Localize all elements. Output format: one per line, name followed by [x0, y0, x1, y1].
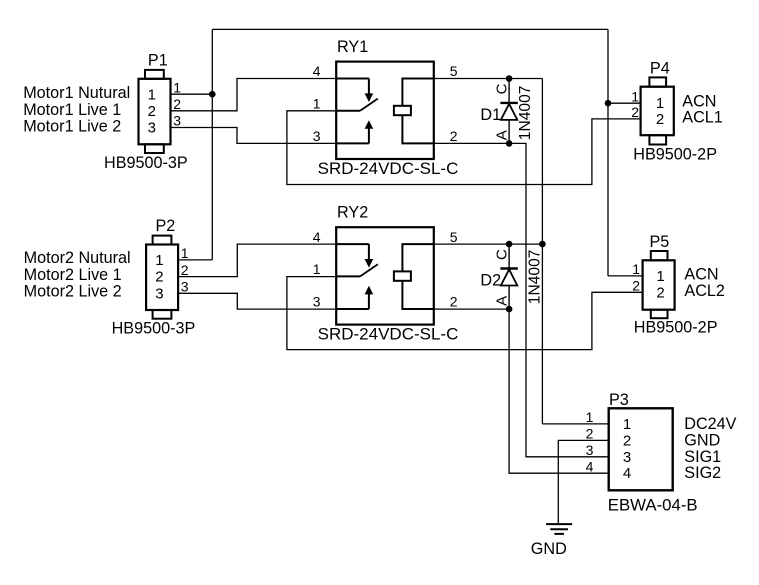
node junction dot D1 anode	[506, 140, 513, 147]
svg-text:1: 1	[148, 86, 156, 103]
svg-text:2: 2	[586, 426, 594, 442]
svg-text:Motor1 Nutural: Motor1 Nutural	[23, 84, 130, 102]
svg-text:3: 3	[313, 294, 321, 310]
connector P4 top tab	[649, 77, 666, 86]
wire RY2 pin1 to P5 pin2 ACL2	[287, 277, 643, 350]
svg-text:P1: P1	[148, 51, 168, 69]
svg-text:1: 1	[632, 261, 640, 277]
wire P1 pin1 to neutral rail junction	[171, 93, 213, 95]
svg-text:1: 1	[586, 409, 594, 425]
svg-text:1N4007: 1N4007	[527, 250, 544, 305]
svg-text:1: 1	[173, 79, 181, 95]
svg-text:5: 5	[450, 63, 458, 79]
wire RY1 pin1 to P4 pin2 ACL1	[287, 111, 641, 185]
svg-text:SIG2: SIG2	[684, 464, 721, 482]
diode D2 triangle	[501, 269, 517, 285]
wire P3 pin2 to ground	[558, 440, 608, 523]
svg-text:4: 4	[623, 465, 631, 482]
diode D1 anode lead	[508, 120, 510, 143]
svg-text:3: 3	[155, 285, 163, 302]
svg-text:A: A	[494, 130, 511, 140]
connector P2 body	[146, 245, 178, 311]
svg-text:GND: GND	[531, 540, 567, 558]
svg-text:1: 1	[656, 95, 664, 112]
svg-text:P3: P3	[609, 391, 629, 409]
node junction dot neutral rail at P1 pin1	[209, 91, 216, 98]
relay RY1 NC branch with down arrow (pin 4)	[336, 78, 369, 80]
svg-text:3: 3	[173, 113, 181, 129]
svg-text:4: 4	[313, 63, 321, 79]
node junction dot DC24V at RY2 pin5	[539, 241, 546, 248]
relay RY2 NC branch with down arrow (pin 4)	[336, 243, 369, 245]
svg-text:2: 2	[181, 262, 189, 278]
node junction dot D2 cathode	[506, 241, 513, 248]
svg-text:2: 2	[656, 111, 664, 128]
connector P3 body	[609, 408, 673, 490]
svg-text:Motor2 Live 2: Motor2 Live 2	[24, 282, 122, 300]
diode D2 anode lead	[508, 286, 510, 310]
wire RY1 pin5 to DC24V rail	[434, 78, 543, 80]
wire DC24V vertical rail	[541, 79, 543, 424]
connector P2 top tab	[153, 236, 172, 245]
svg-text:1: 1	[155, 252, 163, 269]
svg-text:SIG1: SIG1	[684, 448, 721, 466]
svg-text:1: 1	[313, 261, 321, 277]
relay RY1 body	[336, 62, 434, 159]
svg-text:3: 3	[181, 279, 189, 295]
svg-text:2: 2	[173, 96, 181, 112]
svg-text:P5: P5	[650, 233, 670, 251]
wire neutral rail right vertical	[607, 29, 609, 276]
wire P4 pin1 ACN	[608, 102, 641, 104]
node junction dot D2 anode	[506, 306, 513, 313]
connector P1 top tab	[145, 70, 164, 79]
wire RY2 pin5 to DC24V rail	[434, 243, 543, 245]
svg-text:1: 1	[623, 416, 631, 433]
wire P1 pin3 to RY1 pin3	[171, 128, 337, 144]
svg-text:ACL1: ACL1	[682, 108, 723, 126]
wire RY1 pin2 SIG1 to P3 pin3	[434, 143, 609, 456]
node junction dot neutral rail at P4 pin1	[605, 100, 612, 107]
svg-text:HB9500-2P: HB9500-2P	[633, 146, 717, 164]
relay RY2 NO branch with up arrow (pin 3)	[336, 308, 369, 310]
wire P2 pin3 to RY2 pin3	[179, 293, 337, 309]
relay RY2 body	[336, 227, 434, 324]
connector P4 body	[641, 87, 674, 136]
relay RY1 coil (pins 5 and 2)	[402, 79, 433, 106]
svg-text:C: C	[494, 83, 511, 94]
relay RY1 NO branch with up arrow (pin 3)	[336, 142, 369, 144]
wire neutral rail left vertical	[211, 29, 213, 260]
svg-text:3: 3	[313, 128, 321, 144]
svg-text:2: 2	[656, 284, 664, 301]
relay RY2 common arm (pin 1) and switch blade	[336, 275, 360, 277]
svg-text:HB9500-3P: HB9500-3P	[104, 154, 188, 172]
relay RY1 common arm (pin 1) and switch blade	[336, 110, 360, 112]
wire P2 pin1 to neutral rail	[179, 259, 213, 261]
wire RY2 pin2 SIG2 to P3 pin4	[434, 309, 609, 473]
svg-text:5: 5	[450, 229, 458, 245]
svg-text:ACL2: ACL2	[684, 282, 725, 300]
svg-text:2: 2	[623, 432, 631, 449]
diode D1 triangle	[501, 104, 517, 120]
svg-text:1: 1	[631, 88, 639, 104]
svg-text:HB9500-2P: HB9500-2P	[634, 318, 718, 336]
svg-text:3: 3	[623, 449, 631, 466]
svg-text:3: 3	[148, 120, 156, 137]
connector P2 bottom tab	[153, 310, 172, 319]
wire P2 pin2 to RY2 pin4	[179, 244, 337, 277]
wire DC24V to P3 pin1	[542, 423, 608, 425]
diode D2 cathode bar	[500, 267, 517, 269]
wire neutral rail top horizontal	[212, 28, 608, 30]
svg-text:4: 4	[313, 229, 321, 245]
diode D1 cathode lead	[508, 79, 510, 103]
svg-text:D1: D1	[480, 106, 501, 124]
svg-text:P4: P4	[650, 60, 670, 78]
svg-text:3: 3	[586, 442, 594, 458]
svg-text:SRD-24VDC-SL-C: SRD-24VDC-SL-C	[318, 325, 459, 344]
diode D1 cathode bar	[500, 102, 517, 104]
svg-text:Motor1 Live 1: Motor1 Live 1	[23, 101, 121, 119]
svg-text:2: 2	[450, 128, 458, 144]
svg-text:4: 4	[586, 458, 594, 474]
svg-text:1N4007: 1N4007	[517, 86, 534, 141]
node junction dot D1 cathode	[506, 75, 513, 82]
connector P1 bottom tab	[145, 144, 164, 153]
svg-text:D2: D2	[480, 272, 501, 290]
connector P5 bottom tab	[651, 310, 668, 319]
connector P5 body	[643, 260, 675, 309]
svg-text:2: 2	[450, 294, 458, 310]
relay RY2 coil (pins 5 and 2)	[402, 244, 433, 271]
svg-text:C: C	[494, 249, 511, 260]
svg-text:DC24V: DC24V	[684, 415, 736, 433]
svg-text:P2: P2	[156, 217, 176, 235]
svg-text:Motor1 Live 2: Motor1 Live 2	[23, 117, 121, 135]
ground symbol bars	[546, 523, 572, 525]
wire P1 pin2 to RY1 pin4	[171, 79, 337, 111]
connector P4 bottom tab	[649, 135, 666, 144]
diode D2 cathode lead	[508, 244, 510, 268]
svg-text:SRD-24VDC-SL-C: SRD-24VDC-SL-C	[318, 159, 459, 178]
wire P5 pin1 ACN	[608, 275, 643, 277]
svg-text:RY2: RY2	[337, 203, 368, 221]
svg-text:1: 1	[181, 245, 189, 261]
svg-text:EBWA-04-B: EBWA-04-B	[608, 495, 698, 514]
svg-text:2: 2	[631, 104, 639, 120]
svg-text:1: 1	[656, 268, 664, 285]
svg-text:Motor2 Nutural: Motor2 Nutural	[24, 249, 131, 267]
svg-text:1: 1	[313, 96, 321, 112]
svg-text:HB9500-3P: HB9500-3P	[112, 320, 196, 338]
connector P5 top tab	[651, 251, 668, 260]
svg-text:2: 2	[632, 278, 640, 294]
connector P1 body	[139, 79, 171, 145]
svg-text:2: 2	[148, 103, 156, 120]
svg-text:Motor2 Live 1: Motor2 Live 1	[24, 266, 122, 284]
svg-text:RY1: RY1	[337, 38, 368, 56]
svg-text:2: 2	[155, 269, 163, 286]
svg-text:A: A	[494, 296, 511, 306]
svg-text:GND: GND	[684, 431, 720, 449]
svg-text:ACN: ACN	[684, 265, 718, 283]
